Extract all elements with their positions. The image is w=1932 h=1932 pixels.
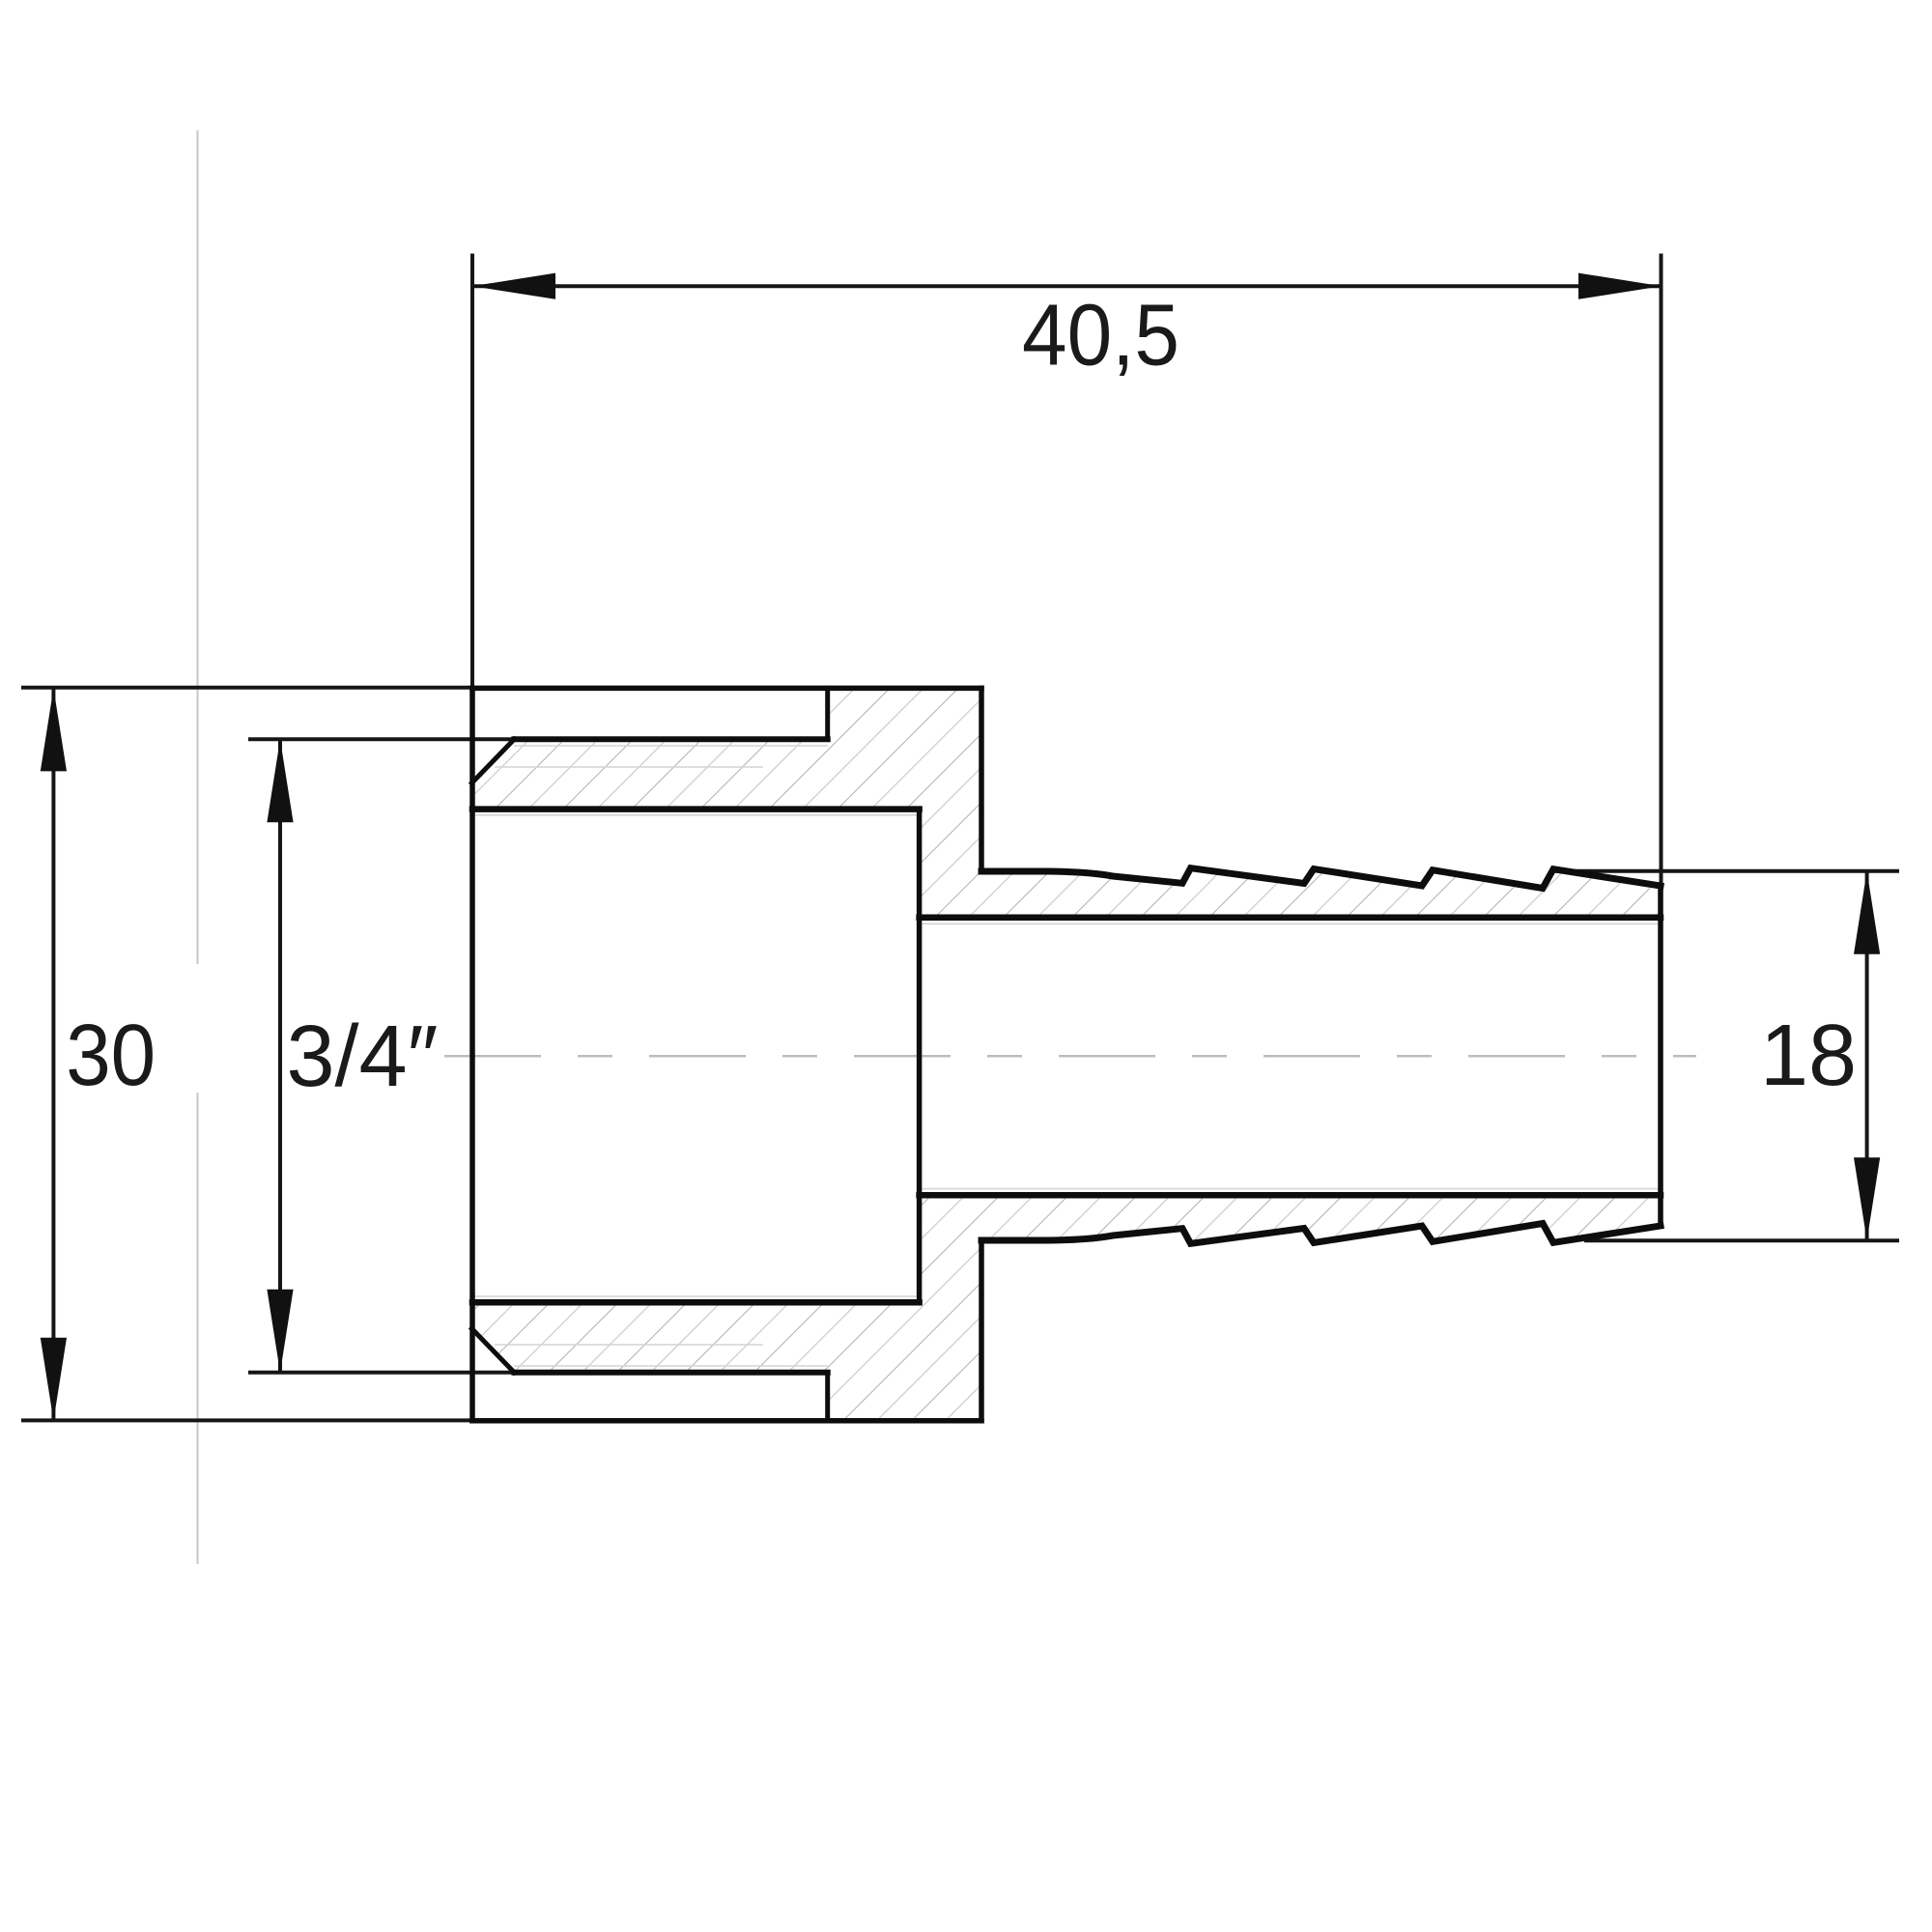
svg-text:3/4″: 3/4″ [287, 1009, 439, 1105]
svg-text:18: 18 [1760, 1008, 1857, 1104]
svg-text:40,5: 40,5 [1022, 288, 1179, 384]
svg-text:30: 30 [66, 1008, 156, 1104]
